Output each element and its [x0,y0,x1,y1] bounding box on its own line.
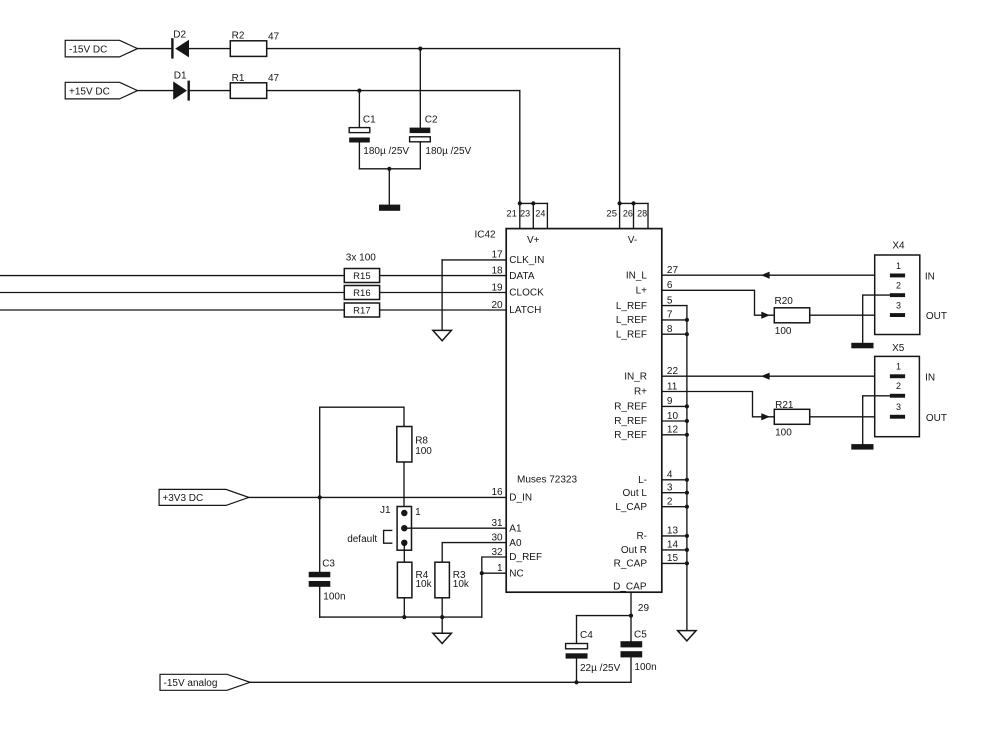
X4 pin 2 contact [890,281,905,298]
junction C4 bottom [574,680,578,684]
svg-text:9: 9 [667,396,673,407]
svg-text:12: 12 [667,425,679,436]
connector X4 [875,241,920,335]
wire LATCH net [0,309,506,311]
capacitor C3 [309,497,346,617]
wire IN_R pin22 to X5-1 [662,375,890,377]
resistor R1 [230,73,279,99]
ground DGND below rail [678,631,697,641]
X5 pin 2 contact [890,381,905,398]
svg-text:20: 20 [491,300,503,311]
resistor R16 [344,286,379,300]
svg-text:23: 23 [520,208,530,218]
svg-text:47: 47 [268,73,280,84]
svg-text:default: default [347,534,377,545]
svg-text:IN_L: IN_L [626,270,648,281]
svg-text:R_REF: R_REF [614,416,647,427]
svg-text:R16: R16 [353,288,370,299]
junction pin29 node [629,614,633,618]
svg-text:D2: D2 [173,30,186,41]
svg-text:L-: L- [638,475,647,486]
junction ground rail [387,167,391,171]
wire pin29 to C4 [577,615,632,617]
junction pin 23 [531,201,535,205]
svg-text:C4: C4 [580,630,593,641]
svg-text:2: 2 [896,281,901,291]
svg-text:180µ /25V: 180µ /25V [425,146,471,157]
label default with bracket [347,530,392,544]
junction pin 12 [685,433,689,437]
svg-text:R17: R17 [353,306,370,317]
svg-text:10k: 10k [453,579,470,590]
svg-text:IN: IN [925,373,935,384]
svg-text:+15V DC: +15V DC [69,86,110,97]
wire analog ground rail vertical [686,306,688,631]
svg-text:R+: R+ [634,387,647,398]
capacitor C4 [566,616,621,683]
arrow on IN_L wire [761,272,770,279]
svg-text:100: 100 [775,326,792,337]
junction pin 14 [685,548,689,552]
connector J1 [380,505,421,550]
resistor R21 [774,400,809,439]
resistor R2 [230,31,279,57]
svg-text:A1: A1 [509,523,522,534]
svg-text:14: 14 [667,540,679,551]
wire +3V3 top loop [320,407,404,497]
junction pin 9 [685,404,689,408]
svg-text:D_IN: D_IN [509,493,532,504]
svg-text:28: 28 [637,208,647,218]
junction pin 7 [685,318,689,322]
junction +15V / C1 [357,89,361,93]
svg-text:R21: R21 [775,400,794,411]
svg-text:CLOCK: CLOCK [509,288,544,299]
wire R4 to bottom rail [403,598,405,617]
wire L+ pin6 to R20 [662,290,775,315]
junction NC [480,571,484,575]
diode D1 [173,70,189,100]
capacitor C2 [410,49,472,169]
svg-text:L_REF: L_REF [616,301,647,312]
svg-text:22µ /25V: 22µ /25V [580,663,621,674]
junction pin 10 [685,419,689,423]
svg-text:IN_R: IN_R [624,371,647,382]
X5 pin 3 contact [890,402,905,419]
wire R+ pin11 to R21 [662,392,775,417]
svg-text:J1: J1 [380,505,391,516]
svg-text:C5: C5 [634,629,647,640]
X4 pin 3 contact [890,300,905,317]
resistor R8 [397,427,433,463]
J1 pin 2 circle [401,525,407,531]
svg-text:13: 13 [667,526,679,537]
svg-text:25: 25 [606,208,617,219]
connector X5 [875,343,920,437]
ground DGND below CLK_IN [433,330,452,340]
svg-text:IN: IN [925,271,935,282]
junction R4 bottom [402,615,406,619]
svg-text:30: 30 [491,532,503,543]
wire -15V down to V- pins [619,49,621,204]
svg-text:16: 16 [491,487,503,498]
svg-text:19: 19 [491,282,503,293]
svg-text:-15V DC: -15V DC [69,44,107,55]
IC right pin names [613,270,647,592]
diode D2 [172,30,189,59]
svg-text:R1: R1 [232,73,245,84]
wire stubs pins 4/3/2 [662,480,687,507]
svg-text:L_REF: L_REF [616,315,647,326]
svg-text:3: 3 [896,402,901,412]
ground DGND below R3 [433,617,452,643]
svg-text:47: 47 [268,31,280,42]
resistor R20 [774,296,809,337]
svg-text:A0: A0 [509,538,522,549]
input flag +15V DC [65,82,137,99]
resistor R17 [344,303,379,317]
svg-text:180µ /25V: 180µ /25V [363,146,409,157]
input flag -15V DC [65,40,137,57]
svg-text:26: 26 [623,208,633,218]
wire V- pin bar 25/26/28 [620,203,648,228]
svg-text:X4: X4 [892,241,905,252]
svg-text:C1: C1 [363,114,376,125]
svg-text:D_CAP: D_CAP [613,581,647,592]
svg-text:L_CAP: L_CAP [615,502,647,513]
J1 pin 1 circle [401,510,407,516]
wire IN_L pin27 to X4-1 [662,274,890,276]
svg-text:2: 2 [667,497,673,508]
svg-text:7: 7 [667,310,673,321]
svg-text:1: 1 [896,261,901,271]
wire A0 IC pin30 to R3 [442,543,506,563]
svg-text:IC42: IC42 [475,230,497,241]
svg-text:5: 5 [667,295,673,306]
wire D_REF / NC bracket [482,557,506,617]
wire CLK_IN to ground [442,260,506,331]
resistor R15 [344,269,379,283]
svg-text:4: 4 [667,470,673,481]
wire DATA net [0,275,506,277]
wire R21 to X5-3 [810,416,890,418]
wire bottom rail of J1 section [320,616,482,618]
IC left pin numbers [491,250,503,574]
svg-text:V+: V+ [527,235,540,246]
J1 pin 3 circle [401,540,407,546]
wire R8 to J1 pin1 [403,462,405,513]
junction pin 21 [518,201,522,205]
arrow into R20 [761,312,770,319]
wire -15V analog net [250,681,631,683]
capacitor C1 [349,91,409,169]
svg-text:NC: NC [509,568,523,579]
wire V+ pin bar 21/23/24 [520,203,548,228]
svg-text:1: 1 [415,507,421,518]
svg-text:3x 100: 3x 100 [346,252,376,263]
junction pin 15 [685,561,689,565]
wire L_REF rail pins 5/7/8 [662,306,687,335]
svg-text:-15V analog: -15V analog [164,678,218,689]
wire stubs pins 13/14/15 [662,536,687,564]
svg-text:17: 17 [491,250,503,261]
svg-text:D1: D1 [174,70,187,81]
input flag +3V3 DC [159,489,249,505]
svg-text:R15: R15 [353,271,370,282]
svg-text:6: 6 [667,280,673,291]
junction pin 26 [631,201,635,205]
wire +3V3 to D_IN pin16 [249,496,506,498]
wire A1 J1 pin2 to IC pin31 [404,527,506,529]
wire R20 to X4-3 [810,314,890,316]
IC right pin numbers [667,265,679,564]
junction R3 bottom [440,615,444,619]
svg-text:10k: 10k [416,579,433,590]
svg-text:R20: R20 [775,296,794,307]
wire +15V net horizontal [138,90,520,92]
svg-text:100n: 100n [323,592,345,603]
resistor R4 [397,562,432,598]
svg-text:8: 8 [667,324,673,335]
svg-text:100: 100 [415,446,432,457]
svg-text:C2: C2 [425,115,438,126]
junction -15V / C2 [418,47,422,51]
pin numbers 25 26 28 [606,208,647,219]
svg-text:CLK_IN: CLK_IN [509,255,544,266]
junction pin 3 [685,491,689,495]
svg-text:OUT: OUT [926,311,947,322]
ground AGND below C1/C2 [379,169,400,211]
svg-text:100n: 100n [634,662,656,673]
svg-text:24: 24 [535,208,545,218]
svg-text:31: 31 [491,518,503,529]
input flag -15V analog [160,674,250,690]
wire CLOCK net [0,292,506,294]
svg-text:1: 1 [497,563,503,574]
svg-text:29: 29 [638,603,650,614]
arrow into R21 [761,413,770,420]
svg-text:Muses 72323: Muses 72323 [517,475,577,486]
pin numbers 21 23 24 [506,208,545,219]
svg-text:3: 3 [667,483,673,494]
svg-text:21: 21 [506,208,517,219]
svg-text:R-: R- [636,531,647,542]
svg-text:18: 18 [491,265,503,276]
svg-text:L_REF: L_REF [616,329,647,340]
capacitor C5 [621,616,657,683]
wire J1 pin3 to R4 [403,543,405,562]
wire R3 to bottom rail [441,598,443,617]
svg-text:10: 10 [667,411,679,422]
svg-text:C3: C3 [322,559,335,570]
junction pin 4 [685,478,689,482]
svg-text:Out L: Out L [623,488,648,499]
junction pin 13 [685,534,689,538]
svg-text:OUT: OUT [926,413,947,424]
svg-text:2: 2 [896,381,901,391]
svg-text:100: 100 [775,428,792,439]
svg-text:+3V3 DC: +3V3 DC [162,493,203,504]
X5 pin 1 contact [890,362,905,379]
wire R_REF stubs pins 9/10/12 [662,406,687,434]
wire D_CAP pin29 [630,592,632,615]
svg-text:R_REF: R_REF [614,430,647,441]
svg-text:11: 11 [667,381,678,392]
svg-text:R_REF: R_REF [614,402,647,413]
svg-text:32: 32 [491,547,503,558]
svg-text:3: 3 [896,300,901,310]
wire -15V net horizontal [138,48,620,50]
wire X4 pin2 to ground [863,295,890,343]
svg-text:D_REF: D_REF [509,552,542,563]
wire +15V down to V+ pins [519,91,521,204]
svg-text:R_CAP: R_CAP [614,559,648,570]
svg-text:R2: R2 [232,31,245,42]
X4 pin 1 contact [890,261,905,278]
svg-text:V-: V- [628,235,637,246]
svg-text:1: 1 [896,362,901,372]
IC left pin names [509,255,544,579]
junction pin 2 [685,505,689,509]
svg-text:27: 27 [667,265,679,276]
wire C1-C2 ground rail [359,168,420,170]
svg-text:DATA: DATA [509,271,535,282]
ground AGND X4 [851,343,873,349]
svg-text:X5: X5 [892,343,905,354]
resistor R3 [435,562,470,598]
junction +3V3 / C3 branch [318,495,322,499]
svg-text:22: 22 [667,366,679,377]
svg-text:Out R: Out R [621,545,647,556]
junction pin 8 [685,332,689,336]
op-amp IC42 Muses 72323 body [475,229,662,593]
svg-text:L+: L+ [636,286,648,297]
svg-text:LATCH: LATCH [509,305,541,316]
svg-text:15: 15 [667,553,679,564]
arrow on IN_R wire [761,373,770,380]
ground AGND X5 [851,444,873,450]
wire X5 pin2 to ground [863,396,890,445]
junction pin 25 [618,201,622,205]
